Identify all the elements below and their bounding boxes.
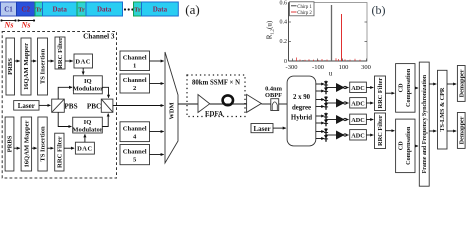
y ticks: [289, 22, 368, 42]
block PRBS (Y pol): [5, 117, 14, 171]
svg-text:300: 300: [361, 64, 371, 71]
block TS-LMS & CPR: [438, 70, 448, 149]
block Frame and Frequency Synchronization: [419, 62, 429, 186]
svg-text:ADC: ADC: [351, 85, 364, 92]
svg-text:Channel: Channel: [123, 125, 147, 132]
amplifier EDFA: [198, 95, 210, 113]
wire Channel 2 to WDM: [150, 83, 164, 85]
wire sync to TS-LMS (top): [429, 83, 436, 85]
block Laser (TX): [14, 101, 39, 111]
svg-text:-100: -100: [312, 64, 324, 71]
svg-text:1: 1: [133, 63, 136, 70]
block Demapper (bottom): [457, 113, 465, 149]
block CD Compensation (top): [396, 64, 415, 113]
cell Data 2: [86, 2, 123, 16]
svg-text:TS Insertion: TS Insertion: [40, 126, 47, 162]
cell Tr 1: [35, 2, 43, 16]
svg-text:0.6: 0.6: [280, 1, 288, 7]
svg-text:Modulator: Modulator: [72, 126, 102, 133]
block 2x90 degree hybrid: [287, 76, 316, 146]
svg-text:-300: -300: [286, 64, 298, 71]
multiplexer WDM: [165, 52, 178, 163]
svg-text:CD: CD: [398, 141, 405, 150]
svg-text:EDFA: EDFA: [205, 111, 223, 118]
wire PBS up to IQ Modulator (X): [58, 87, 72, 99]
cell C1: [1, 2, 17, 16]
svg-text:Channel: Channel: [123, 77, 147, 84]
block ADC 2: [350, 98, 367, 108]
block RRC Filter (RX Y): [375, 113, 386, 149]
cell C2: [17, 2, 36, 16]
wire PRBS to 16QAM: [15, 60, 20, 62]
svg-text:IQ: IQ: [84, 119, 92, 126]
svg-text:0.2: 0.2: [280, 39, 288, 45]
svg-text:Ns: Ns: [4, 21, 14, 30]
svg-text:RRC Filter: RRC Filter: [56, 136, 63, 168]
svg-text:degree: degree: [292, 104, 311, 111]
svg-text:ADC: ADC: [351, 100, 364, 107]
svg-text:Frame and Frequency Synchroniz: Frame and Frequency Synchronization: [422, 74, 428, 173]
wire RRC to DAC: [65, 60, 73, 62]
svg-text:16QAM Mapper: 16QAM Mapper: [23, 43, 30, 90]
wire CD to sync (bottom): [415, 145, 418, 147]
wire RRC to CD (bottom): [386, 130, 395, 132]
svg-text:TS Insertion: TS Insertion: [40, 48, 47, 84]
legend box: [290, 2, 315, 16]
wire DAC up to IQ Modulator (Y): [84, 134, 86, 142]
svg-text:Demapper: Demapper: [458, 69, 465, 97]
PBC diagonal: [101, 99, 113, 112]
wire PBS down to IQ Modulator (Y): [58, 112, 71, 126]
svg-text:Tr: Tr: [36, 7, 43, 14]
cell Data 3: [142, 2, 179, 16]
wire ADC2 to RRC: [366, 102, 373, 104]
svg-text:Compensation: Compensation: [405, 126, 412, 165]
svg-text:OBPF: OBPF: [265, 92, 282, 99]
vertical texts TX top chain: [7, 37, 65, 168]
ADC blocks: [350, 82, 367, 140]
wire CD to sync (top): [415, 87, 418, 89]
svg-text:C1: C1: [4, 6, 13, 14]
fiber coil: [223, 95, 233, 105]
cell Tr 3: [134, 2, 142, 16]
wire ADC1 to RRC: [366, 87, 373, 89]
wire EDFA to coil: [210, 103, 247, 105]
wire sync to TS-LMS (bottom): [429, 130, 436, 132]
svg-text:PRBS: PRBS: [7, 58, 14, 75]
noise floor dark: [303, 60, 348, 61]
block Channel 1: [120, 51, 150, 71]
svg-text:Data: Data: [153, 6, 168, 14]
block DAC (X pol): [74, 54, 93, 68]
svg-text:0.4: 0.4: [280, 19, 288, 25]
svg-text:Laser: Laser: [18, 102, 35, 110]
svg-text:ADC: ADC: [351, 132, 364, 139]
wire TS-LMS to Demapper (bottom): [447, 130, 456, 132]
block PBS: [52, 99, 65, 112]
wire 16QAM to TS (Y): [32, 147, 37, 149]
wire PBC to WDM: [113, 105, 164, 107]
svg-text:(b): (b): [372, 3, 386, 17]
svg-text:Demapper: Demapper: [458, 116, 465, 144]
svg-text:PRBS: PRBS: [7, 135, 14, 152]
block CD Compensation (bottom): [396, 119, 415, 173]
wire TS Insertion to RRC: [48, 60, 54, 62]
balanced photodetector row 3 (c=119.5): [316, 113, 349, 127]
svg-text:Compensation: Compensation: [405, 68, 412, 107]
svg-text:DAC: DAC: [75, 59, 91, 66]
svg-text:Laser: Laser: [253, 125, 270, 133]
x ticks: [293, 59, 367, 62]
block IQ Modulator (X pol): [73, 76, 102, 94]
block Laser (LO): [251, 124, 273, 133]
block RRC Filter (RX X): [375, 76, 386, 111]
block Channel 2: [120, 74, 150, 93]
chirp1 spike (dark): [331, 5, 333, 61]
svg-text:Data: Data: [53, 6, 68, 14]
chirp2 spike (red): [341, 14, 343, 61]
cell Tr 2: [77, 2, 86, 16]
wires TX top chain: [14, 61, 164, 148]
svg-text:IQ: IQ: [84, 78, 92, 85]
svg-text:RRC Filter: RRC Filter: [57, 37, 64, 69]
filter OBPF: [271, 99, 279, 111]
block PBC: [101, 99, 113, 112]
svg-text:Data: Data: [97, 6, 112, 14]
wire RRC to DAC (Y): [64, 147, 74, 149]
wire WDM to link box: [178, 103, 198, 105]
svg-text:Channel 3: Channel 3: [83, 32, 115, 40]
svg-text:WDM: WDM: [169, 102, 176, 119]
wire Channel 1 to WDM: [150, 60, 164, 62]
svg-text:Hybrid: Hybrid: [291, 115, 312, 122]
svg-text:Chirp 1: Chirp 1: [297, 5, 312, 10]
wire amp to OBPF: [261, 103, 271, 105]
PBS diagonal: [52, 99, 65, 112]
wire Laser to PBS: [39, 104, 50, 106]
wire DAC down to IQ Modulator (X): [82, 68, 84, 74]
block ADC 1: [350, 82, 367, 92]
wire RRC to CD (top): [386, 92, 395, 94]
svg-text:ADC: ADC: [351, 117, 364, 124]
svg-text:PBS: PBS: [64, 102, 77, 110]
svg-text:Ns: Ns: [21, 21, 31, 30]
block TS Insertion (X pol): [38, 38, 48, 95]
svg-text:80km SSMF × N: 80km SSMF × N: [192, 80, 240, 87]
block Channel 4: [120, 122, 150, 142]
svg-text:TS-LMS & CPR: TS-LMS & CPR: [439, 87, 446, 132]
wire IQ Modulator (Y) to PBC: [102, 114, 108, 127]
dotted recirculating loop box: [187, 75, 245, 117]
block 16QAM Mapper (X pol): [21, 38, 31, 95]
svg-text:R1,2(u): R1,2(u): [266, 20, 276, 39]
svg-text:PBC: PBC: [87, 102, 101, 110]
svg-text:DAC: DAC: [77, 146, 93, 153]
svg-text:u: u: [329, 70, 333, 78]
amplifier (booster after loop): [247, 94, 262, 112]
svg-text:Chirp 2: Chirp 2: [297, 11, 312, 16]
cell Data 1: [43, 2, 78, 16]
block DAC (Y pol): [75, 142, 94, 154]
block IQ Modulator (Y pol): [73, 117, 103, 133]
balanced photodetector row 2 (c=103): [316, 96, 349, 110]
wire 16QAM to TS Insertion: [31, 60, 36, 62]
svg-text:Tr: Tr: [78, 7, 85, 14]
wire Channel 4 to WDM: [150, 131, 164, 133]
wire TS-LMS to Demapper (top): [447, 83, 456, 85]
block Demapper (top): [457, 66, 465, 102]
svg-text:16QAM Mapper: 16QAM Mapper: [23, 120, 30, 167]
svg-text:100: 100: [339, 64, 349, 71]
wire ADC4 to RRC: [366, 134, 373, 136]
svg-text:Channel: Channel: [123, 55, 147, 62]
svg-text:CD: CD: [398, 83, 405, 92]
svg-text:RRC Filter: RRC Filter: [377, 78, 384, 109]
wire ADC3 to RRC: [366, 119, 373, 121]
wire IQ Modulator (X) to PBC: [102, 87, 108, 97]
block 16QAM Mapper (Y pol): [21, 117, 32, 171]
dimension arrow Ns 1: [0, 19, 16, 21]
block PRBS (X pol): [6, 38, 15, 95]
dimension arrow Ns 2: [17, 19, 35, 21]
chart frame: [289, 3, 368, 62]
wire TS to RRC (Y): [47, 147, 53, 149]
noise floor red: [297, 58, 361, 62]
svg-text:2 x 90: 2 x 90: [293, 94, 311, 101]
svg-text:Channel: Channel: [123, 148, 147, 155]
wire OBPF to hybrid: [279, 103, 287, 105]
block ADC 4: [350, 130, 367, 140]
svg-text:C2: C2: [21, 6, 30, 14]
wire Channel 5 to WDM: [150, 154, 164, 156]
block Channel 5: [120, 145, 150, 165]
dashed box channel 3: [2, 32, 116, 179]
block RRC Filter (X pol): [55, 37, 65, 69]
wire PRBS to 16QAM (Y): [14, 147, 20, 149]
svg-text:Tr: Tr: [134, 7, 141, 14]
block TS Insertion (Y pol): [38, 117, 47, 171]
svg-text:(a): (a): [185, 2, 199, 17]
block ADC 3: [350, 114, 367, 124]
ellipsis dots: [124, 8, 134, 10]
wire LO laser to hybrid: [273, 127, 286, 129]
svg-text:Modulator: Modulator: [73, 86, 103, 93]
block RRC Filter (Y pol): [55, 133, 64, 171]
balanced photodetector row 4 (c=135): [316, 128, 349, 142]
balanced photodetector row 1 (c=87.5): [316, 81, 349, 95]
svg-text:RRC Filter: RRC Filter: [377, 115, 384, 146]
